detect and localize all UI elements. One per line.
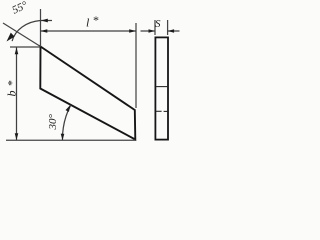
S left extension line (154, 20, 156, 35)
30 deg arc top arrowhead (66, 105, 71, 112)
top edge extension line (for 55 deg angle) (3, 23, 41, 47)
b* dimension line (16, 48, 18, 141)
S dimension line left part (141, 30, 156, 32)
S right extension line (167, 20, 169, 35)
svg-text:b: b (5, 91, 19, 97)
l* left arrowhead (41, 29, 48, 33)
svg-text:30°: 30° (47, 114, 59, 131)
55 deg arc lower arrowhead (7, 33, 15, 42)
l* dimension line (41, 30, 137, 32)
l* right arrowhead (129, 29, 136, 33)
30 deg arc bottom arrowhead (61, 134, 65, 141)
b* bottom arrowhead (15, 133, 19, 140)
svg-text:*: * (5, 80, 19, 86)
end view bevel line 1 (156, 86, 168, 88)
l* right extension line (135, 23, 137, 108)
S dimension right arrowhead (168, 29, 175, 33)
55 deg angle arc (12, 21, 52, 42)
l* left extension line (40, 9, 42, 47)
end view bevel line 2 (broken) (156, 110, 162, 112)
end view rectangle (blade thickness view) (155, 37, 168, 139)
30 deg angle arc (62, 105, 70, 140)
S dimension line right part (168, 30, 180, 32)
b* top extension line (10, 46, 40, 48)
55 deg arc top arrowhead (41, 19, 48, 23)
svg-text:*: * (93, 13, 99, 27)
svg-text:S: S (155, 18, 161, 30)
bottom extension line (angle baseline) (6, 139, 135, 141)
S dimension left arrowhead (149, 29, 156, 33)
b* top arrowhead (15, 48, 19, 55)
blade profile (main view quadrilateral) (40, 47, 135, 140)
paper background (0, 0, 187, 156)
